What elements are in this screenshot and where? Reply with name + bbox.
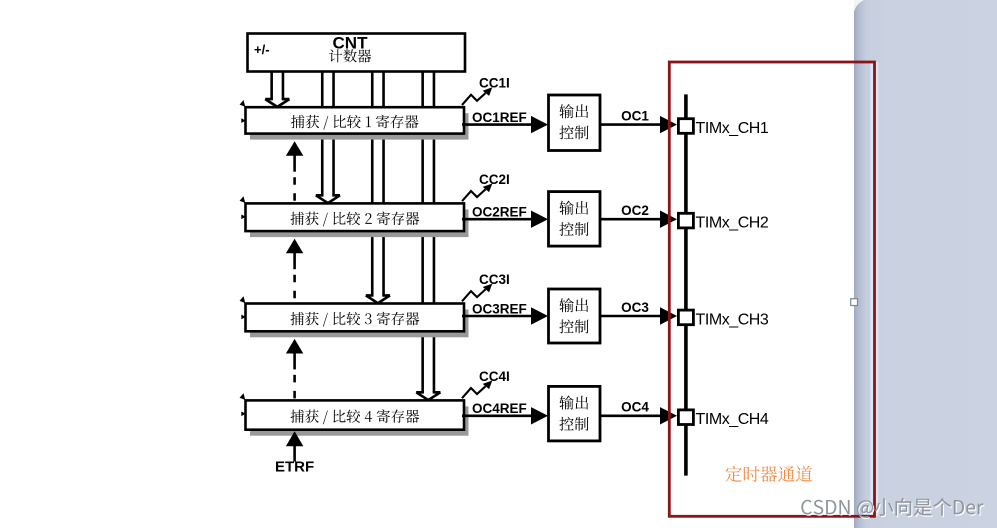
- wire zigzag switch CC4I: [462, 386, 486, 398]
- pin square TIMx_CH2: [678, 213, 693, 228]
- timer-channel region outline (dark red): [669, 62, 874, 516]
- selection handle square on page edge: [851, 299, 858, 306]
- pin square TIMx_CH3: [678, 310, 693, 325]
- wire bus1 from CNT to register 1 (hollow arrow): [265, 72, 289, 107]
- svg-text:OC4: OC4: [621, 400, 649, 415]
- wire OC1REF from register 1 to output control: [462, 123, 535, 126]
- wire TIMx channel pin rail: [684, 94, 688, 475]
- wire bus2 from CNT to register 2 (hollow arrow): [316, 72, 340, 204]
- wire OC3REF from register 3 to output control: [462, 315, 535, 318]
- page-edge blue band: [854, 0, 997, 528]
- wire bus3 from CNT to register 3 (hollow arrow): [366, 72, 390, 304]
- CNT counter box: [248, 34, 466, 72]
- input arrow at register 2 top-left corner: [240, 196, 246, 203]
- svg-text:OC2: OC2: [621, 203, 649, 218]
- input arrow at register 2 left edge: [241, 215, 246, 220]
- input arrow at register 3 top-left corner: [240, 296, 246, 303]
- pin square TIMx_CH1: [678, 119, 693, 134]
- label 捕获 / 比较 3 寄存器: [291, 312, 420, 327]
- wire zigzag switch CC3I: [462, 289, 486, 301]
- input arrow at register 1 top-left corner: [240, 100, 246, 107]
- register 1 drop shadow: [250, 113, 469, 139]
- label 捕获 / 比较 1 寄存器: [291, 115, 419, 130]
- svg-text:OC1REF: OC1REF: [472, 110, 527, 125]
- label 控制: [559, 417, 588, 431]
- page corner wedge: [853, 0, 864, 11]
- svg-text:OC3: OC3: [621, 300, 649, 315]
- wire bus4 from CNT to register 4 (hollow arrow): [416, 72, 440, 401]
- label 捕获 / 比较 4 寄存器: [291, 409, 420, 424]
- output control box U2: [549, 192, 601, 247]
- svg-text:TIMx_CH4: TIMx_CH4: [696, 411, 769, 428]
- label 控制: [559, 126, 588, 140]
- input arrow at register 1 left edge: [241, 118, 246, 123]
- label 输出: [559, 201, 588, 215]
- svg-text:OC3REF: OC3REF: [472, 301, 527, 316]
- watermark CSDN @小向是个Der: [803, 499, 985, 519]
- register box: 捕获/比较 3 寄存器: [246, 304, 465, 332]
- wire zigzag switch CC1I: [462, 93, 486, 105]
- svg-text:OC1: OC1: [621, 108, 649, 123]
- label 定时器通道 (orange): [725, 466, 812, 482]
- label 输出: [559, 104, 588, 118]
- output control box U4: [549, 386, 601, 441]
- svg-text:CC3I: CC3I: [479, 272, 510, 287]
- register box: 捕获/比较 2 寄存器: [246, 203, 465, 231]
- wire dashed feedback segment into register 3 bottom: [286, 339, 303, 401]
- svg-text:CC1I: CC1I: [479, 76, 510, 91]
- label 捕获 / 比较 2 寄存器: [291, 212, 420, 227]
- wire OC4REF from register 4 to output control: [462, 414, 535, 417]
- wire ETRF input arrow into register 4 bottom: [286, 431, 303, 446]
- register box: 捕获/比较 4 寄存器: [246, 400, 465, 429]
- wire OC3 from output control to pin: [600, 315, 663, 318]
- label 计数器: [329, 49, 371, 62]
- svg-text:OC2REF: OC2REF: [472, 205, 527, 220]
- label 控制: [559, 320, 588, 334]
- wire OC2 from output control to pin: [600, 218, 663, 221]
- register 4 drop shadow: [250, 406, 469, 435]
- svg-text:ETRF: ETRF: [275, 459, 314, 476]
- label 输出: [559, 298, 588, 312]
- wire dashed feedback segment into register 1 bottom: [286, 141, 303, 203]
- svg-text:CC2I: CC2I: [479, 172, 510, 187]
- svg-text:TIMx_CH1: TIMx_CH1: [696, 120, 769, 137]
- svg-text:CC4I: CC4I: [479, 369, 510, 384]
- register 2 drop shadow: [250, 209, 469, 237]
- output control box U1: [549, 95, 601, 151]
- pin square TIMx_CH4: [678, 410, 693, 425]
- wire dashed feedback segment into register 2 bottom: [286, 239, 303, 304]
- input arrow at register 3 left edge: [241, 315, 246, 320]
- wire OC1 from output control to pin: [600, 123, 663, 126]
- wire zigzag switch CC2I: [462, 189, 486, 201]
- light halo behind red edge on band: [870, 62, 878, 516]
- register box: 捕获/比较 1 寄存器: [246, 107, 465, 133]
- svg-text:+/-: +/-: [254, 42, 270, 57]
- svg-text:OC4REF: OC4REF: [472, 401, 527, 416]
- input arrow at register 4 top-left corner: [240, 393, 246, 400]
- input arrow at register 4 left edge: [241, 412, 246, 417]
- output control box U3: [549, 289, 601, 343]
- wire OC4 from output control to pin: [600, 414, 663, 417]
- svg-text:TIMx_CH3: TIMx_CH3: [696, 311, 769, 328]
- label 输出: [559, 396, 588, 410]
- wire OC2REF from register 2 to output control: [462, 218, 535, 221]
- label 控制: [559, 222, 588, 236]
- svg-text:TIMx_CH2: TIMx_CH2: [696, 215, 769, 232]
- register 3 drop shadow: [250, 310, 469, 338]
